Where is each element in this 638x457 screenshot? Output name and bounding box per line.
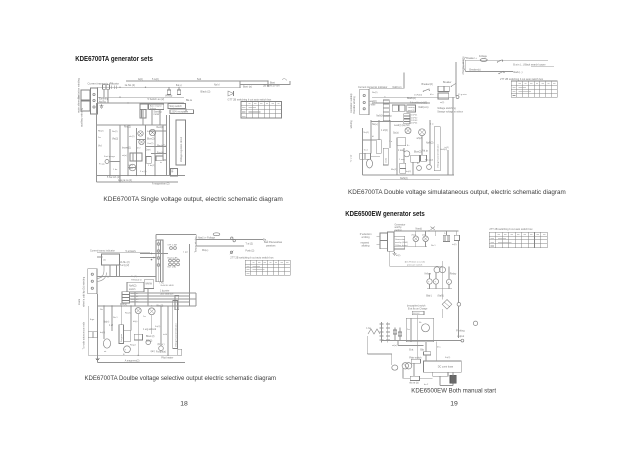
svg-text:KDE6700TA generator sets: KDE6700TA generator sets bbox=[75, 56, 153, 63]
table auto switch box schematic 1 bbox=[228, 98, 282, 118]
svg-text:Red(2): Red(2) bbox=[157, 127, 164, 129]
connector box B s4 bbox=[377, 241, 388, 249]
switch SW4 bbox=[499, 71, 504, 73]
wire left rail B bbox=[97, 294, 99, 363]
svg-text:RWD(2) bl: RWD(2) bl bbox=[131, 279, 142, 281]
starter motor M1 diamond bbox=[442, 300, 452, 310]
socket SO1 bbox=[105, 160, 109, 164]
svg-text:brown(1): brown(1) bbox=[122, 147, 131, 150]
label stator winding s3 (vertical) bbox=[350, 93, 356, 114]
svg-text:Posk (2): Posk (2) bbox=[245, 250, 254, 253]
receptacle label box bbox=[170, 110, 194, 114]
wire upper rail to right bbox=[126, 80, 268, 82]
ignition lock s4 bbox=[402, 363, 412, 369]
wire battery branch bbox=[240, 84, 290, 86]
wire main rail s3 bbox=[372, 96, 455, 98]
wire bottom rail 1 bbox=[97, 175, 186, 177]
svg-text:Nas(r): Nas(r) bbox=[416, 228, 423, 231]
svg-text:KDE6500EW generator sets: KDE6500EW generator sets bbox=[345, 211, 425, 218]
svg-text:DC contr boas: DC contr boas bbox=[438, 365, 454, 368]
ground under generator block bbox=[392, 252, 396, 256]
lamp H5 bbox=[148, 308, 155, 315]
lamp H3 bbox=[139, 139, 144, 144]
switch contact on rail1 bbox=[231, 237, 236, 242]
diode D3 bbox=[433, 279, 438, 284]
svg-text:1w: 1w bbox=[143, 316, 146, 318]
relay box K9 bbox=[411, 155, 420, 162]
lamp H4 bbox=[135, 308, 141, 314]
svg-text:3 a (4): 3 a (4) bbox=[140, 171, 147, 173]
wire block down bbox=[390, 251, 443, 266]
wire relay drop K3 bbox=[134, 292, 136, 306]
relay box K2 bbox=[149, 104, 164, 110]
sub board box bbox=[433, 372, 448, 376]
svg-text:2TT 2B switching b cut auto sw: 2TT 2B switching b cut auto switch box bbox=[500, 78, 544, 81]
wire relay drop K4 bbox=[147, 289, 149, 306]
lamp H8 bbox=[413, 236, 419, 242]
label lead wires s3 bbox=[369, 101, 377, 107]
svg-text:1 pat: 1 pat bbox=[183, 251, 188, 254]
svg-text:Bla(2): Bla(2) bbox=[391, 169, 397, 171]
svg-text:Voltage switching: Voltage switching bbox=[437, 107, 456, 110]
capacitor C2 bbox=[177, 87, 180, 94]
svg-text:1 Ra: 1 Ra bbox=[159, 282, 164, 284]
resistor column R1 bbox=[119, 325, 124, 344]
wire right long rail s4 bbox=[457, 261, 459, 313]
node junction top bbox=[239, 87, 240, 88]
svg-text:Foltage: Foltage bbox=[479, 55, 488, 58]
svg-text:Breaker(2): Breaker(2) bbox=[422, 83, 433, 86]
extra labels s3 top bbox=[372, 92, 445, 104]
wire battery drop bbox=[289, 81, 291, 85]
svg-text:1 of: 1 of bbox=[109, 325, 113, 327]
svg-text:pressure switch: pressure switch bbox=[407, 264, 423, 267]
svg-text:WWW: WWW bbox=[145, 284, 152, 286]
hatch ticks top left bbox=[112, 86, 117, 89]
box component s4a bbox=[443, 235, 449, 241]
relay RL1 bbox=[434, 267, 446, 273]
svg-text:1 ba(2): 1 ba(2) bbox=[148, 165, 155, 167]
module box s3 bbox=[397, 138, 406, 146]
svg-text:BL(2) 2 AK: BL(2) 2 AK bbox=[168, 257, 179, 260]
wire charging riser bbox=[464, 60, 466, 71]
svg-text:w(2): w(2) bbox=[440, 102, 445, 104]
svg-text:Na(2): Na(2) bbox=[112, 131, 118, 133]
wire sub rail s3 bbox=[372, 102, 430, 104]
relay module K4 bbox=[144, 280, 153, 289]
label stator windings (vertical) bbox=[78, 276, 86, 307]
svg-text:OPI 1.8M: OPI 1.8M bbox=[168, 244, 177, 246]
svg-text:A magnetism (2): A magnetism (2) bbox=[152, 183, 170, 186]
open frame box bbox=[102, 254, 120, 265]
wire mesh s3 bbox=[363, 120, 430, 175]
svg-text:Mo(+): Mo(+) bbox=[202, 249, 209, 252]
svg-text:Blue(2): Blue(2) bbox=[147, 139, 155, 141]
junction dots s2 bbox=[151, 253, 155, 261]
oval left s4 bbox=[392, 365, 398, 370]
label above relay K3 bbox=[131, 276, 142, 281]
wire mesh s4 bbox=[367, 336, 453, 386]
wire inner column 7 bbox=[162, 125, 164, 160]
svg-text:failure: failure bbox=[150, 107, 157, 110]
svg-text:Parking: Parking bbox=[456, 330, 465, 333]
wire mid vertical s2b bbox=[195, 293, 197, 306]
muffler oval bbox=[103, 339, 110, 348]
parking terminal bbox=[461, 339, 464, 342]
svg-text:2TT 2B switching b cut auto sw: 2TT 2B switching b cut auto switch box bbox=[230, 257, 274, 260]
voltage regulator box U1 bbox=[176, 120, 186, 165]
svg-text:Bat(2): Bat(2) bbox=[146, 339, 152, 342]
svg-text:a...: a... bbox=[407, 145, 411, 147]
relay module K3 bbox=[127, 282, 144, 292]
svg-text:Na(2): Na(2) bbox=[372, 92, 378, 94]
svg-text:T-a fg (2): T-a fg (2) bbox=[120, 264, 130, 267]
svg-text:1CF04: 1CF04 bbox=[411, 123, 418, 125]
wire inner column 6 bbox=[154, 131, 156, 176]
terminal circle right bbox=[473, 321, 477, 325]
charging winding label s3 (vertical) bbox=[462, 56, 466, 75]
svg-text:switch: switch bbox=[129, 288, 136, 291]
wire charge rail 2 bbox=[196, 245, 244, 247]
contact cluster lower bbox=[168, 257, 180, 269]
wire lead rail s3 bbox=[371, 121, 403, 123]
wire left rail A bbox=[87, 306, 89, 355]
extra labels s2 body bbox=[100, 313, 168, 354]
relay row K6 bbox=[392, 105, 398, 111]
wire bottom rail s3 bbox=[363, 174, 454, 176]
svg-text:alloting: alloting bbox=[362, 245, 371, 248]
table auto switch box schematic 2 bbox=[230, 257, 290, 276]
wire bus vertical left rail bbox=[96, 103, 98, 182]
svg-text:1 of(2): 1 of(2) bbox=[381, 130, 388, 132]
fuse box s4 bbox=[410, 376, 419, 380]
svg-text:(an): (an) bbox=[151, 351, 155, 353]
svg-text:Fustpa(a): Fustpa(a) bbox=[156, 350, 166, 353]
wire bottom rail 2 s3 bbox=[380, 179, 440, 181]
svg-text:wt(a): wt(a) bbox=[392, 344, 397, 347]
svg-text:Voltage/current indicator: Voltage/current indicator bbox=[437, 144, 440, 168]
wire inner column 2 bbox=[119, 125, 121, 182]
svg-text:Fregene: Fregene bbox=[120, 333, 123, 342]
indicator tall box bbox=[173, 301, 178, 349]
wire right long vertical s2 bbox=[189, 244, 191, 277]
box component s4b bbox=[454, 235, 459, 240]
svg-text:Bla (2): Bla (2) bbox=[157, 306, 164, 308]
extra labels s1 top bbox=[110, 79, 220, 102]
wire top row rail bbox=[98, 305, 196, 307]
wire stub row 5 bbox=[163, 159, 166, 161]
svg-text:Rec(2): Rec(2) bbox=[124, 127, 131, 129]
wire charge vertical bbox=[195, 235, 197, 247]
svg-text:NaN(2): NaN(2) bbox=[426, 143, 434, 145]
label encaptive switch bbox=[407, 304, 428, 310]
connector CN2 main bbox=[81, 101, 90, 111]
svg-text:Bla ta: Bla ta bbox=[186, 99, 193, 102]
label p eduction a biting bbox=[360, 233, 372, 239]
wire regulator rails bbox=[167, 115, 170, 176]
label expansi alloting bbox=[361, 241, 371, 247]
breaker switch SW2 bbox=[443, 81, 456, 87]
table auto switch box schematic 4 bbox=[489, 228, 547, 248]
svg-text:Black (2): Black (2) bbox=[201, 91, 211, 94]
svg-text:1 Lg wire: 1 Lg wire bbox=[458, 93, 468, 96]
resistor strip RA bbox=[376, 140, 381, 154]
svg-text:B at fla on Charge: B at fla on Charge bbox=[408, 307, 428, 310]
ground G2 bbox=[95, 357, 99, 361]
svg-text:wh(2): wh(2) bbox=[129, 136, 135, 138]
regulator box bbox=[124, 331, 131, 342]
wire hang drops s4 bbox=[416, 231, 457, 236]
wire parking drop bbox=[457, 312, 459, 338]
charge coil symbol bbox=[368, 329, 380, 334]
svg-text:Breaker(s): Breaker(s) bbox=[469, 68, 480, 71]
svg-text:Na(+): Na(+) bbox=[372, 124, 378, 126]
connector strip X2 bbox=[88, 269, 97, 294]
breaker switch SW1 bbox=[422, 83, 433, 92]
relay row K7 bbox=[399, 105, 405, 111]
relay box K10 bbox=[421, 155, 427, 161]
svg-text:Vla(2): Vla(2) bbox=[112, 139, 118, 141]
svg-text:motor: motor bbox=[154, 113, 160, 116]
socket SO5 bbox=[427, 165, 432, 170]
capacitor C1 bbox=[167, 87, 170, 94]
svg-text:5wb: 5wb bbox=[197, 79, 202, 81]
breaker lamp H2 bbox=[138, 131, 143, 136]
svg-text:1-Wire: 1-Wire bbox=[369, 104, 376, 107]
svg-text:2TT 2B switching b cut auto sw: 2TT 2B switching b cut auto switch box bbox=[489, 228, 533, 231]
svg-text:1 ba: 1 ba bbox=[366, 328, 371, 330]
svg-text:19: 19 bbox=[450, 400, 458, 407]
wire lamp row rail bbox=[394, 242, 427, 247]
svg-text:Bost: Bost bbox=[270, 81, 275, 84]
svg-text:passions: passions bbox=[266, 245, 276, 248]
label generator worthy flash bbox=[395, 223, 406, 232]
svg-text:Subcablica(rd)(5): Subcablica(rd)(5) bbox=[410, 102, 428, 105]
svg-text:To w: To w bbox=[364, 150, 369, 152]
svg-text:1CF(40): 1CF(40) bbox=[414, 95, 422, 97]
svg-text:wheel a cabl tip (2a) winding: wheel a cabl tip (2a) winding bbox=[83, 276, 86, 307]
fuse block F2 bbox=[140, 110, 146, 118]
label auxiliary winding (vertical) bbox=[80, 107, 84, 127]
socket SO2 bbox=[146, 340, 151, 345]
svg-text:ta(2): ta(2) bbox=[452, 243, 457, 246]
wire box drop 4 bbox=[185, 108, 187, 112]
oil alert LED1 bbox=[129, 164, 136, 171]
svg-text:Plate switch: Plate switch bbox=[409, 356, 422, 359]
svg-text:a biting: a biting bbox=[362, 236, 371, 239]
wire pair down bbox=[117, 265, 120, 277]
wire to starter bbox=[441, 289, 443, 300]
svg-text:(DC Protect o cut of): (DC Protect o cut of) bbox=[405, 261, 425, 264]
svg-text:Yellow board: Yellow board bbox=[395, 244, 408, 247]
pin strip column bbox=[383, 100, 389, 121]
svg-text:5 Sw itch (2): 5 Sw itch (2) bbox=[107, 176, 120, 179]
svg-text:A magness(2): A magness(2) bbox=[125, 359, 140, 362]
socket SO3 bbox=[159, 346, 164, 351]
svg-text:Na 1: Na 1 bbox=[431, 245, 436, 247]
svg-text:Yellow: Yellow bbox=[424, 273, 431, 276]
svg-text:Stop switch: Stop switch bbox=[170, 105, 183, 108]
svg-text:Lead(2): Lead(2) bbox=[369, 101, 377, 103]
junction dots top rails bbox=[119, 87, 146, 104]
wire riser right s3 bbox=[455, 62, 457, 96]
svg-text:worthy (NaN): worthy (NaN) bbox=[395, 241, 408, 244]
wire inner column 3 bbox=[127, 125, 129, 176]
svg-text:Pul ja(2): Pul ja(2) bbox=[425, 160, 433, 162]
svg-text:black(...): black(...) bbox=[513, 71, 522, 74]
svg-text:NaN(xxx): NaN(xxx) bbox=[419, 106, 429, 109]
svg-text:NaN BL HEN: NaN BL HEN bbox=[161, 285, 174, 287]
fuel solenoid dark bbox=[450, 375, 456, 385]
svg-text:wh(2): wh(2) bbox=[417, 138, 423, 140]
wire strip rail s2 bbox=[97, 276, 156, 278]
aux contact boxes bbox=[438, 86, 449, 99]
starter terminal bbox=[457, 303, 461, 307]
svg-text:5 Switch au (2): 5 Switch au (2) bbox=[148, 98, 165, 101]
svg-text:Na(2): Na(2) bbox=[364, 132, 370, 134]
wire diode drops bbox=[430, 266, 450, 289]
wire mid rail bbox=[98, 96, 185, 98]
relay row K8 bbox=[407, 105, 416, 112]
wire charge rail 1 bbox=[196, 239, 263, 241]
relay box K1 bbox=[140, 104, 148, 109]
spark plug box s3 bbox=[360, 153, 371, 159]
svg-text:KDE6500EW Both manual start: KDE6500EW Both manual start bbox=[411, 388, 496, 395]
svg-text:To make autonomous vady: To make autonomous vady bbox=[83, 321, 86, 349]
wire mid riser s4 bbox=[417, 309, 442, 318]
fuse oval bbox=[213, 233, 220, 236]
wire stub row 1 bbox=[149, 130, 167, 132]
socket SO4 bbox=[404, 151, 410, 157]
switch SW3 bbox=[498, 60, 503, 62]
svg-text:Rb(2): Rb(2) bbox=[98, 131, 104, 133]
wire aux vertical right s3 bbox=[447, 150, 449, 175]
diode stack bbox=[400, 163, 406, 173]
svg-text:NaN(2): NaN(2) bbox=[400, 177, 408, 180]
wire riser to charging bbox=[403, 73, 405, 89]
svg-text:Black(2): Black(2) bbox=[407, 97, 416, 100]
svg-text:1 way: 1 way bbox=[398, 150, 405, 152]
connector CN1 excitation bbox=[81, 90, 90, 100]
wire charging rail 1 s3 bbox=[465, 59, 548, 61]
svg-text:Voltage/current indicator: Voltage/current indicator bbox=[175, 323, 178, 347]
switch contact below rail2 bbox=[230, 251, 234, 255]
wire left rail s3 bbox=[362, 128, 364, 175]
svg-text:Exam: Exam bbox=[78, 299, 81, 305]
connector box A s4 bbox=[377, 233, 388, 240]
svg-text:1w: 1w bbox=[98, 137, 101, 139]
svg-text:1set: 1set bbox=[146, 149, 151, 152]
svg-text:1 w: 1 w bbox=[430, 124, 434, 126]
diode D4 bbox=[447, 279, 452, 284]
wire top rail bbox=[98, 86, 241, 88]
svg-text:24 V: 24 V bbox=[129, 165, 134, 167]
pin ladder s4 bbox=[380, 322, 390, 343]
svg-text:sewing: sewing bbox=[408, 107, 416, 109]
svg-text:Fal ja: Fal ja bbox=[422, 151, 428, 153]
svg-text:Fu(2): Fu(2) bbox=[155, 326, 160, 328]
connector strip X3 bbox=[360, 89, 369, 115]
selector rows bbox=[122, 292, 139, 304]
muffler oval s3 bbox=[367, 159, 373, 168]
main switch box bbox=[411, 359, 420, 363]
relay box K5 bbox=[134, 334, 142, 340]
wire charging rail 2 s3 bbox=[465, 70, 513, 72]
wire top rail s4 bbox=[394, 230, 458, 232]
svg-text:fla(+): fla(+) bbox=[176, 84, 182, 87]
diode D1 bbox=[228, 91, 234, 96]
svg-text:fa(2): fa(2) bbox=[138, 79, 143, 81]
svg-text:1w: 1w bbox=[407, 329, 410, 331]
node dots bottom bbox=[109, 175, 155, 183]
wire inner column 4 bbox=[136, 128, 138, 176]
selector rows s3 bbox=[404, 114, 418, 125]
wire bottom rail s2 bbox=[88, 354, 181, 356]
wire stub row 4 bbox=[151, 153, 166, 155]
spark plug box bbox=[88, 332, 97, 338]
svg-text:Breaker +: Breaker + bbox=[466, 57, 477, 60]
wire bundle bend 2 bbox=[97, 273, 107, 282]
vertical link box bbox=[175, 295, 179, 310]
ground symbol G1 bbox=[99, 105, 103, 109]
label cluster s3 bbox=[372, 124, 434, 173]
junction dots bundle bbox=[101, 276, 109, 278]
wire box drop 1 bbox=[142, 109, 144, 125]
wire stub row 3 bbox=[146, 146, 167, 148]
svg-text:LED: LED bbox=[129, 168, 134, 170]
svg-text:1a No.(2): 1a No.(2) bbox=[125, 84, 136, 87]
wire inner column 5 bbox=[145, 125, 147, 176]
stop switch box bbox=[168, 103, 186, 108]
svg-text:resist: resist bbox=[384, 158, 387, 163]
lamp H9 bbox=[423, 236, 429, 242]
wire right drop bbox=[267, 81, 269, 87]
svg-text:Na 1: Na 1 bbox=[113, 317, 118, 319]
svg-text:VbR(a): VbR(a) bbox=[165, 95, 173, 97]
svg-text:Fuel gauge: Fuel gauge bbox=[104, 156, 116, 158]
label parking output bbox=[456, 330, 465, 339]
generator block s4 bbox=[388, 232, 394, 251]
svg-text:GTT 2B switching b cut auto sw: GTT 2B switching b cut auto switch box bbox=[228, 98, 272, 101]
extra labels s4 bbox=[392, 243, 457, 386]
label cluster s2 bbox=[90, 309, 166, 356]
svg-text:rka ra (a): rka ra (a) bbox=[409, 381, 419, 384]
svg-text:Sy(a): Sy(a) bbox=[393, 133, 399, 135]
battery terminal box bbox=[412, 311, 424, 315]
svg-text:NaN(2): NaN(2) bbox=[129, 286, 137, 288]
svg-text:ba(2): ba(2) bbox=[100, 332, 105, 334]
extra labels s1 body bbox=[98, 131, 163, 168]
svg-text:Strange voltage st volece: Strange voltage st volece bbox=[437, 111, 464, 114]
svg-text:post W: post W bbox=[408, 109, 416, 112]
svg-text:A ta pa na (2): A ta pa na (2) bbox=[118, 179, 132, 182]
wire right drop s4 bbox=[436, 231, 459, 261]
wire inner column 1 bbox=[109, 129, 111, 176]
svg-text:Lead(r) (ta) NN: Lead(r) (ta) NN bbox=[394, 124, 410, 127]
wire stub row 6 bbox=[110, 161, 120, 163]
svg-text:wt(a): wt(a) bbox=[122, 154, 127, 157]
svg-text:1 way: 1 way bbox=[399, 159, 406, 161]
wire stub row 2 bbox=[137, 139, 146, 141]
selector row tails bbox=[130, 293, 197, 302]
svg-text:Na bl: Na bl bbox=[214, 85, 220, 87]
svg-text:Fue(2): Fue(2) bbox=[147, 131, 154, 133]
contact cluster upper bbox=[168, 244, 177, 249]
svg-text:T ai (2): T ai (2) bbox=[245, 243, 253, 246]
svg-text:1 dg wire: 1 dg wire bbox=[160, 290, 170, 293]
control rows box s4 bbox=[394, 236, 408, 249]
wire box drop 3 bbox=[159, 110, 161, 125]
